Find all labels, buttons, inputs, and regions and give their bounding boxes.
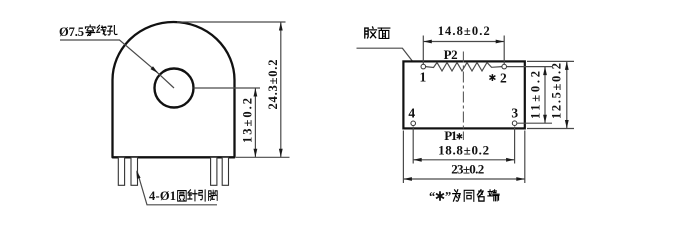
svg-text:1: 1: [420, 70, 427, 85]
winding zigzag: [426, 63, 502, 72]
svg-text:24.3±0.2: 24.3±0.2: [266, 60, 280, 110]
pin A: [118, 157, 124, 185]
dim 12.5±0.2 right outer: [527, 60, 574, 62]
dim 24.3±0.2: [280, 22, 282, 157]
leader for pin label: [137, 172, 217, 205]
centre line: [462, 52, 464, 141]
pin 2: [502, 64, 507, 69]
svg-text:2: 2: [500, 71, 507, 86]
star mark pin2: [489, 74, 495, 81]
dim 11±0.2 right inner: [507, 66, 552, 68]
leader for hole label: [60, 40, 157, 72]
pin 4: [411, 121, 416, 126]
svg-text:12.5±0.2: 12.5±0.2: [550, 63, 564, 119]
pin 1: [421, 64, 426, 69]
glue-face label: [365, 27, 377, 38]
svg-text:14.8±0.2: 14.8±0.2: [438, 24, 490, 38]
leader glue-face: [357, 48, 413, 61]
dim 14.8±0.2 top: [422, 36, 424, 65]
extension line top (apex): [177, 21, 286, 23]
dim 18.8±0.2 bottom inner: [412, 127, 414, 164]
svg-text:”: ”: [445, 190, 451, 204]
through hole circle: [155, 69, 194, 108]
svg-text:“: “: [429, 190, 435, 204]
body rectangle: [403, 61, 524, 128]
pin C: [211, 157, 217, 185]
pin B: [131, 157, 138, 185]
svg-text:P2: P2: [444, 47, 458, 62]
svg-text:Ø7.5: Ø7.5: [59, 25, 84, 39]
svg-text:4-Ø1: 4-Ø1: [149, 189, 176, 203]
svg-text:P1: P1: [444, 128, 457, 143]
svg-text:18.8±0.2: 18.8±0.2: [438, 142, 489, 157]
dim 23±0.2 bottom outer: [402, 131, 404, 184]
extension line circle centre level: [194, 87, 261, 89]
svg-text:23±0.2: 23±0.2: [451, 162, 484, 177]
transformer body outline: [113, 22, 235, 157]
pin 3: [512, 121, 517, 126]
svg-text:3: 3: [511, 106, 518, 121]
extension line bottom: [236, 156, 290, 158]
dim 13±0.2: [254, 88, 256, 157]
pin D: [222, 157, 228, 185]
svg-text:4: 4: [408, 106, 415, 121]
